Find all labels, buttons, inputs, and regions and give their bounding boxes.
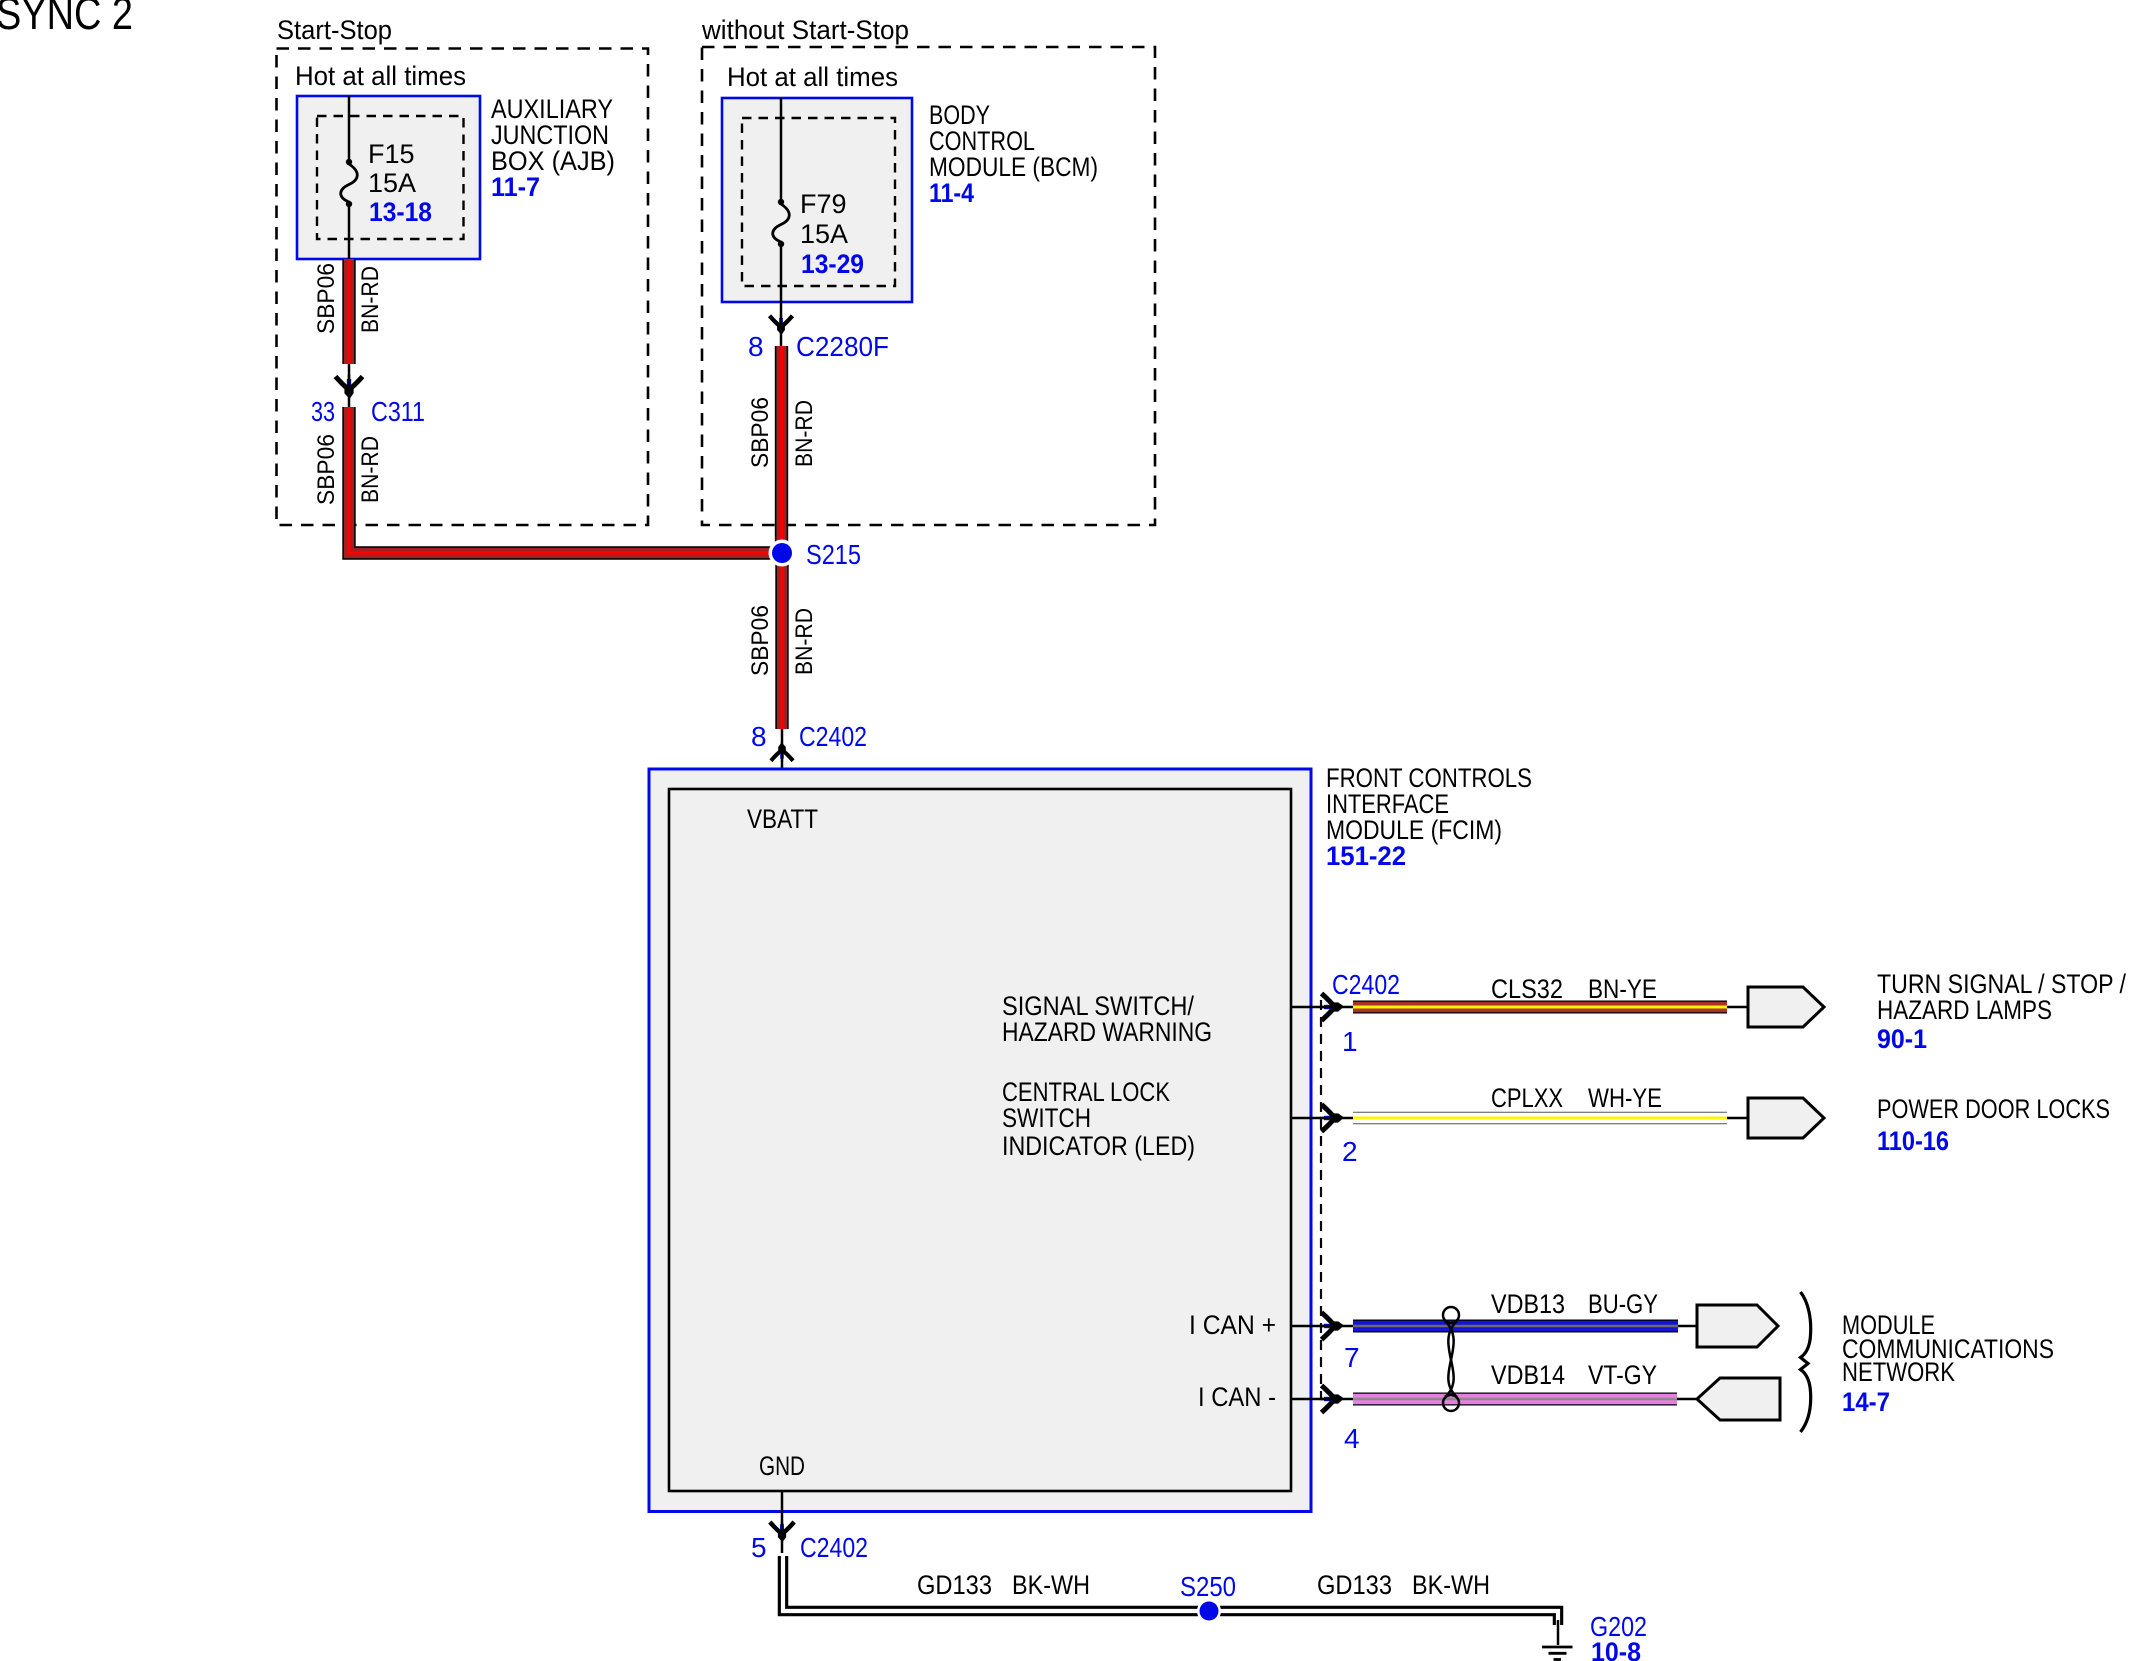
FCIM right pin stubs xyxy=(1291,1007,1353,1399)
svg-text:without Start-Stop: without Start-Stop xyxy=(701,15,909,45)
svg-text:S215: S215 xyxy=(806,539,861,570)
wire SBP06 BN-RD (red power wires) xyxy=(349,259,782,729)
svg-text:VT-GY: VT-GY xyxy=(1588,1360,1657,1390)
svg-text:POWER DOOR LOCKS: POWER DOOR LOCKS xyxy=(1877,1094,2110,1124)
svg-text:13-29: 13-29 xyxy=(801,249,864,279)
svg-text:5: 5 xyxy=(751,1532,767,1563)
svg-text:BU-GY: BU-GY xyxy=(1588,1289,1658,1319)
svg-text:14-7: 14-7 xyxy=(1842,1387,1890,1417)
svg-text:10-8: 10-8 xyxy=(1591,1637,1641,1661)
wire stub below AJB into C311 xyxy=(348,364,351,407)
svg-text:I CAN +: I CAN + xyxy=(1189,1310,1276,1340)
wire stub GND out of FCIM xyxy=(781,1491,784,1553)
label power door locks xyxy=(1877,1094,2110,1156)
connector C311 pin 33 xyxy=(311,375,425,427)
wire CLS32 BN-YE xyxy=(1353,974,1750,1007)
svg-text:SWITCH: SWITCH xyxy=(1002,1103,1091,1133)
svg-text:SBP06: SBP06 xyxy=(313,263,340,334)
dashed box Start-Stop xyxy=(277,15,649,525)
splice S215 xyxy=(769,539,862,570)
svg-text:C2280F: C2280F xyxy=(796,331,889,362)
svg-text:S250: S250 xyxy=(1180,1571,1236,1602)
svg-text:HAZARD WARNING: HAZARD WARNING xyxy=(1002,1017,1212,1047)
svg-text:SBP06: SBP06 xyxy=(747,397,774,468)
connector C2402 pin 7 xyxy=(1320,1313,1360,1374)
twisted pair symbol xyxy=(1443,1307,1459,1411)
svg-text:C2402: C2402 xyxy=(799,721,867,752)
svg-text:13-18: 13-18 xyxy=(369,197,432,227)
svg-text:CLS32: CLS32 xyxy=(1491,974,1563,1004)
svg-text:11-4: 11-4 xyxy=(929,178,974,208)
fuse F79 15A 13-29 xyxy=(773,98,864,302)
svg-text:CPLXX: CPLXX xyxy=(1491,1083,1563,1113)
svg-text:BN-YE: BN-YE xyxy=(1588,974,1657,1004)
connector module comms (I CAN -) xyxy=(1697,1378,1780,1420)
svg-text:GD133: GD133 xyxy=(1317,1570,1392,1600)
svg-text:WH-YE: WH-YE xyxy=(1588,1083,1662,1113)
svg-text:BN-RD: BN-RD xyxy=(791,608,818,675)
svg-text:BN-RD: BN-RD xyxy=(357,266,384,333)
connector C2402 pin 2 xyxy=(1320,1105,1358,1168)
svg-text:VDB13: VDB13 xyxy=(1491,1289,1565,1319)
svg-text:BN-RD: BN-RD xyxy=(357,436,384,503)
svg-text:15A: 15A xyxy=(800,219,848,249)
svg-text:8: 8 xyxy=(748,331,764,362)
svg-text:110-16: 110-16 xyxy=(1877,1126,1949,1156)
wire CPLXX WH-YE xyxy=(1353,1083,1750,1118)
svg-text:2: 2 xyxy=(1342,1136,1358,1167)
svg-text:11-7: 11-7 xyxy=(491,172,540,202)
svg-text:SBP06: SBP06 xyxy=(747,605,774,676)
svg-text:7: 7 xyxy=(1344,1342,1360,1373)
svg-text:NETWORK: NETWORK xyxy=(1842,1357,1955,1387)
connector to power door locks xyxy=(1748,1098,1824,1138)
svg-text:GND: GND xyxy=(759,1451,805,1481)
svg-text:90-1: 90-1 xyxy=(1877,1024,1927,1054)
dashed box without Start-Stop xyxy=(701,15,1155,525)
connector C2402 pin 1 xyxy=(1320,994,1358,1058)
wire GD133 BK-WH (ground run) xyxy=(783,1556,1558,1625)
svg-text:I CAN -: I CAN - xyxy=(1198,1382,1276,1412)
svg-text:151-22: 151-22 xyxy=(1326,841,1406,871)
svg-text:C2402: C2402 xyxy=(1332,969,1400,1000)
svg-text:BK-WH: BK-WH xyxy=(1412,1570,1490,1600)
svg-text:Hot at all times: Hot at all times xyxy=(295,61,466,91)
svg-text:F79: F79 xyxy=(800,189,847,219)
svg-text:GD133: GD133 xyxy=(917,1570,992,1600)
FCIM internal labels xyxy=(1002,991,1276,1412)
svg-text:VDB14: VDB14 xyxy=(1491,1360,1565,1390)
wire VDB14 VT-GY xyxy=(1353,1360,1699,1399)
connector C2402 dashed line (right side) xyxy=(1321,969,1400,1399)
svg-text:15A: 15A xyxy=(368,168,416,198)
svg-text:F15: F15 xyxy=(368,139,415,169)
svg-text:4: 4 xyxy=(1344,1423,1360,1454)
svg-text:SBP06: SBP06 xyxy=(313,434,340,505)
label module communications network xyxy=(1842,1310,2054,1417)
svg-text:Hot at all times: Hot at all times xyxy=(727,62,898,92)
svg-text:1: 1 xyxy=(1342,1026,1358,1057)
brace module communications network xyxy=(1801,1292,1811,1432)
splice S250 xyxy=(1180,1571,1236,1623)
module FCIM outer box xyxy=(649,763,1532,1512)
ground G202 xyxy=(1542,1611,1647,1661)
svg-text:SYNC 2: SYNC 2 xyxy=(0,0,133,39)
wire stub C2402 pin 8 into FCIM xyxy=(781,729,784,789)
connector C2280F pin 8 xyxy=(748,315,889,362)
svg-text:Start-Stop: Start-Stop xyxy=(277,15,392,45)
connector C2402 pin 8 xyxy=(751,721,867,762)
fuse F15 15A 13-18 xyxy=(341,96,432,259)
svg-text:8: 8 xyxy=(751,721,767,752)
svg-text:C311: C311 xyxy=(371,396,425,427)
connector C2402 pin 5 xyxy=(751,1521,868,1563)
svg-text:BN-RD: BN-RD xyxy=(791,400,818,467)
svg-text:C2402: C2402 xyxy=(800,1532,868,1563)
label turn signal xyxy=(1877,969,2126,1054)
connector to turn signal lamps xyxy=(1748,987,1824,1027)
svg-text:33: 33 xyxy=(311,396,335,427)
svg-text:VBATT: VBATT xyxy=(747,804,818,834)
svg-text:HAZARD LAMPS: HAZARD LAMPS xyxy=(1877,995,2052,1025)
auxiliary junction box AJB xyxy=(297,94,615,259)
wire VDB13 BU-GY xyxy=(1353,1289,1699,1326)
svg-text:INDICATOR (LED): INDICATOR (LED) xyxy=(1002,1131,1195,1161)
connector C2402 pin 4 xyxy=(1320,1386,1360,1455)
wire stub below BCM into C2280F xyxy=(780,302,783,346)
body control module BCM xyxy=(722,98,1098,302)
connector module comms (I CAN +) xyxy=(1697,1305,1778,1347)
svg-text:BK-WH: BK-WH xyxy=(1012,1570,1090,1600)
